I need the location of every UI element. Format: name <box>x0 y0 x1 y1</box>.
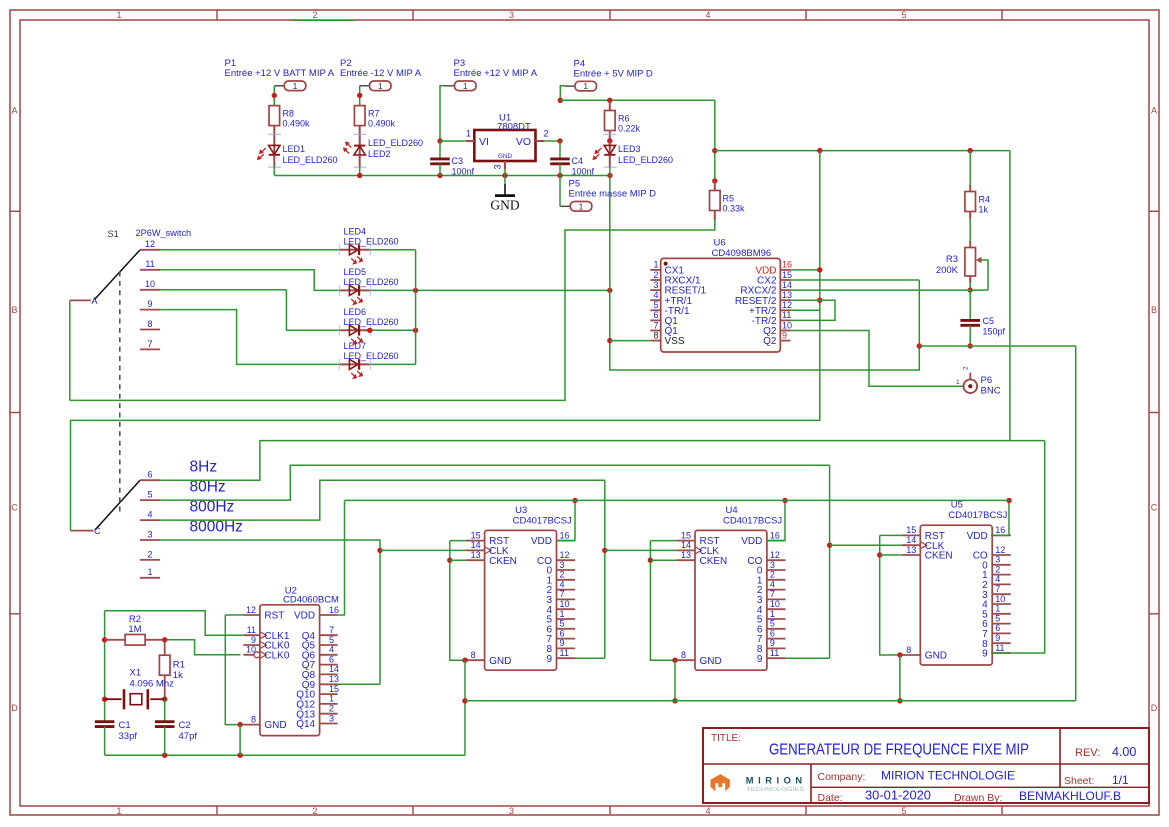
port P3 labels <box>454 58 538 79</box>
svg-text:800Hz: 800Hz <box>190 499 235 516</box>
svg-text:CLK0: CLK0 <box>264 650 289 661</box>
svg-text:C2: C2 <box>179 720 191 731</box>
wire VDD rail y500 <box>345 499 1010 501</box>
S1 pin 11 stub <box>140 269 160 271</box>
svg-text:11: 11 <box>560 648 569 658</box>
svg-text:8: 8 <box>681 650 686 660</box>
junction U3 GND <box>462 658 467 663</box>
svg-text:LED4: LED4 <box>344 227 367 237</box>
LED6 labels <box>344 307 399 327</box>
svg-text:GND: GND <box>925 651 947 662</box>
svg-text:Q2: Q2 <box>763 336 777 347</box>
S1 pin 7 stub <box>140 348 160 350</box>
svg-text:2: 2 <box>329 704 334 714</box>
junction U4 CKEN <box>648 558 653 563</box>
svg-text:7: 7 <box>329 625 334 635</box>
svg-text:X1: X1 <box>130 668 142 679</box>
wire R3 bottom to node <box>969 283 971 290</box>
U5 right pin stubs <box>992 535 1011 653</box>
junction X1 right R1 bottom <box>162 697 167 702</box>
junction U1 gnd <box>502 173 507 178</box>
R8 pin stub to LED1 <box>273 126 275 146</box>
wire U3 RST <box>450 540 466 542</box>
svg-text:10: 10 <box>995 594 1005 604</box>
S1 pin 6 stub <box>140 479 160 481</box>
svg-text:4.00: 4.00 <box>1112 745 1136 759</box>
R4 labels <box>979 195 991 215</box>
svg-text:6: 6 <box>147 470 152 480</box>
R2 left stub <box>105 639 126 641</box>
junction U3 VDD rail <box>572 498 577 503</box>
svg-text:3: 3 <box>493 164 503 169</box>
S1 pin 8 stub <box>140 329 160 331</box>
svg-text:8: 8 <box>471 650 476 660</box>
svg-text:7: 7 <box>653 320 658 330</box>
LED LED7 <box>340 359 370 378</box>
svg-text:11: 11 <box>770 648 779 658</box>
svg-text:7808DT: 7808DT <box>497 122 531 133</box>
U1 pin 1 stub <box>466 140 475 142</box>
wire P4 down <box>560 86 565 101</box>
svg-text:8Hz: 8Hz <box>190 459 218 476</box>
svg-text:15: 15 <box>782 270 792 280</box>
wire U4 CLK feed <box>605 549 677 551</box>
R7 pin stub to LED2 <box>359 126 361 146</box>
R3 top stub <box>969 241 971 248</box>
svg-text:33pf: 33pf <box>119 731 138 742</box>
svg-text:1k: 1k <box>979 205 989 215</box>
svg-text:14: 14 <box>906 535 916 545</box>
svg-text:4: 4 <box>995 574 1000 584</box>
S1 pin 12 number <box>145 239 155 249</box>
LED3 labels <box>618 144 673 165</box>
svg-text:LED6: LED6 <box>344 307 367 317</box>
svg-text:4: 4 <box>770 579 775 589</box>
R3 labels <box>936 254 959 276</box>
svg-text:5: 5 <box>770 619 775 629</box>
U2 reference labels <box>283 586 339 606</box>
wire gnd rail y701 <box>465 700 1076 702</box>
svg-text:4: 4 <box>147 510 152 520</box>
U1 pin 2 number <box>544 129 549 139</box>
svg-text:2: 2 <box>995 564 1000 574</box>
svg-text:80Hz: 80Hz <box>190 479 226 496</box>
net label 8Hz <box>190 459 218 476</box>
svg-text:U4: U4 <box>726 505 738 516</box>
ground symbol GND <box>490 184 519 213</box>
svg-text:LED2: LED2 <box>368 149 391 159</box>
port P2 <box>360 81 392 91</box>
ic U2 CD4060BCM body <box>260 605 320 736</box>
svg-text:CD4017BCSJ: CD4017BCSJ <box>723 515 782 526</box>
svg-text:Company:: Company: <box>818 771 866 783</box>
C2 top wire <box>164 699 166 722</box>
U5 left pin names <box>925 531 953 662</box>
U4 reference labels <box>723 505 782 527</box>
svg-text:C1: C1 <box>119 720 131 731</box>
svg-text:9: 9 <box>757 654 763 665</box>
U3 left pin numbers <box>471 530 481 660</box>
svg-text:9: 9 <box>995 633 1000 643</box>
svg-text:2: 2 <box>147 549 152 559</box>
svg-text:10: 10 <box>560 599 570 609</box>
svg-text:B: B <box>1151 305 1157 315</box>
junction U5 CKEN <box>877 552 882 557</box>
U3 left pin names <box>489 536 517 667</box>
wire rail y150 <box>715 150 1010 152</box>
svg-text:2: 2 <box>653 270 658 280</box>
svg-text:LED7: LED7 <box>344 341 367 351</box>
wire U3 VDD stub ext <box>557 540 576 542</box>
wire x1010 vertical <box>1009 151 1011 441</box>
svg-text:GND: GND <box>700 656 722 667</box>
U1 pin 2 stub <box>536 140 545 142</box>
U4 right pin stubs <box>767 541 786 659</box>
svg-text:9: 9 <box>982 649 988 660</box>
U6 right pin stubs <box>780 270 790 341</box>
svg-text:R7: R7 <box>368 109 380 119</box>
svg-text:7: 7 <box>770 589 775 599</box>
LED1 cathode pin <box>273 155 275 167</box>
wire P3 to U1 VI <box>440 86 445 141</box>
U2 right pin names <box>294 611 316 731</box>
port P5 <box>560 201 592 211</box>
S1 pin 9 number <box>147 299 152 309</box>
U4 left pin stubs <box>676 541 701 661</box>
LED2 anode pin <box>359 155 361 167</box>
S1 pin 2 number <box>147 549 152 559</box>
wire U5 RST-CKEN-GND tie <box>880 535 902 655</box>
LED5 labels <box>344 267 399 287</box>
U6 right pin numbers <box>782 260 792 341</box>
U4 left pin numbers <box>681 530 691 660</box>
svg-text:9: 9 <box>560 638 565 648</box>
capacitor C2 <box>155 722 175 727</box>
junction R2 right R1 top <box>162 637 167 642</box>
svg-text:RST: RST <box>264 611 284 622</box>
svg-text:2: 2 <box>560 570 565 580</box>
R4 bottom stub <box>969 212 971 220</box>
U3 right pin stubs <box>557 541 576 659</box>
junction U5 GND <box>897 652 902 657</box>
svg-text:4: 4 <box>653 290 658 300</box>
svg-text:1: 1 <box>116 806 121 816</box>
LED cathode rail vertical <box>415 250 417 365</box>
capacitor C3 <box>430 159 450 164</box>
S1 pin 9 stub <box>140 309 160 311</box>
svg-text:2: 2 <box>544 129 549 139</box>
svg-text:0.490k: 0.490k <box>283 119 311 129</box>
S1 pin 3 number <box>147 529 152 539</box>
port P3 <box>445 81 477 91</box>
svg-text:2: 2 <box>962 366 969 370</box>
svg-text:7: 7 <box>147 339 152 349</box>
svg-text:LED3: LED3 <box>618 144 641 154</box>
junction U6 VDD <box>817 267 822 272</box>
ic U6 CD4098BM96 body <box>661 258 781 352</box>
svg-text:R6: R6 <box>618 114 630 124</box>
wire P2 to R7 <box>359 86 361 106</box>
S1 pin 8 number <box>147 319 152 329</box>
svg-text:9: 9 <box>770 638 775 648</box>
wire LED rail to gnd vertical <box>416 289 610 291</box>
wire gnd rail top <box>274 175 610 177</box>
wire U5 RST <box>880 534 902 536</box>
svg-text:P6: P6 <box>981 375 993 386</box>
title block texts <box>711 733 1136 804</box>
wire C3 top pin <box>439 141 441 159</box>
svg-text:GND: GND <box>498 153 512 160</box>
svg-text:6: 6 <box>653 310 658 320</box>
R8 labels <box>283 109 311 129</box>
wire U2 Q9 to 8000Hz <box>338 683 380 685</box>
wire C3 bottom to gnd <box>439 164 441 176</box>
wire LED5 cathode to rail <box>359 289 416 291</box>
S1 pin 12 stub <box>140 249 160 251</box>
wire U2 RST to GND tie <box>225 615 243 725</box>
svg-text:MIRION: MIRION <box>746 775 807 785</box>
wire U4 Q9 out <box>785 657 830 659</box>
wire LED2 to gnd rail <box>359 166 361 176</box>
svg-text:11: 11 <box>247 625 256 635</box>
svg-text:GND: GND <box>489 656 511 667</box>
svg-text:6: 6 <box>995 623 1000 633</box>
wire U6 VSS to gnd <box>610 340 651 342</box>
svg-text:1: 1 <box>583 81 588 91</box>
U1 pin 3 stub <box>504 161 506 169</box>
wire gnd vertical x1076 <box>1075 346 1077 701</box>
wire U2 RST <box>225 614 243 616</box>
wire LED1 to gnd rail <box>273 166 275 176</box>
LED1 labels <box>283 144 338 165</box>
svg-text:Entrée masse MIP D: Entrée masse MIP D <box>569 189 657 200</box>
port P4 labels <box>574 58 653 79</box>
junction U6 RESET2 <box>817 298 822 303</box>
wire 8000Hz net <box>160 540 380 684</box>
junction C3 gnd <box>437 173 442 178</box>
R2 labels <box>128 614 141 635</box>
svg-text:1: 1 <box>956 379 960 386</box>
svg-text:3: 3 <box>147 529 152 539</box>
svg-text:10: 10 <box>246 645 256 655</box>
svg-text:1: 1 <box>560 609 565 619</box>
svg-text:4: 4 <box>705 10 710 20</box>
svg-text:16: 16 <box>782 260 792 270</box>
wire U3 CLK feed <box>380 549 466 551</box>
svg-text:CD4098BM96: CD4098BM96 <box>712 248 772 259</box>
LED LED5 <box>340 285 370 304</box>
junction U4 gnd rail <box>672 698 677 703</box>
junction rail LED5 <box>413 288 418 293</box>
svg-text:8: 8 <box>906 645 911 655</box>
junction LED6 cathode <box>367 328 372 333</box>
wire LED7 cathode to rail <box>359 363 416 365</box>
wire CX2 down to C5 bottom <box>918 280 920 346</box>
LED7 labels <box>344 341 399 361</box>
R4 top stub <box>969 185 971 192</box>
svg-text:1M: 1M <box>128 624 141 635</box>
wire U4 RST <box>650 540 676 542</box>
svg-text:1/1: 1/1 <box>1112 773 1129 787</box>
svg-text:12: 12 <box>560 550 570 560</box>
R6 labels <box>618 114 641 134</box>
svg-text:13: 13 <box>782 290 792 300</box>
ic U5 CD4017BCSJ body <box>920 525 992 665</box>
C2 labels <box>179 720 198 742</box>
wire U3 Q9 out <box>575 657 605 659</box>
svg-text:R8: R8 <box>283 109 295 119</box>
svg-text:Q14: Q14 <box>296 719 315 730</box>
S1 pole C arm <box>95 480 140 529</box>
junction rail LED6 <box>413 328 418 333</box>
LED3 cathode pin <box>609 155 611 167</box>
svg-text:3: 3 <box>995 555 1000 565</box>
U3 right pin numbers <box>560 530 570 658</box>
port P2 labels <box>340 58 422 79</box>
wire U5 VDD up <box>1008 500 1010 535</box>
junction 80Hz U5 clk <box>827 543 832 548</box>
S1 pin 5 number <box>147 490 152 500</box>
R5 bottom stub <box>714 211 716 221</box>
R5 pin stub top <box>714 181 716 191</box>
svg-text:1: 1 <box>653 260 658 270</box>
wire S1 pin10 to LED6 <box>286 290 346 331</box>
S1 common C letter <box>94 526 101 536</box>
U3 left pin stubs <box>466 541 491 661</box>
svg-text:C5: C5 <box>983 316 995 326</box>
svg-text:5: 5 <box>329 635 334 645</box>
resistor R5 <box>710 191 721 211</box>
wire U5 CKEN <box>880 554 902 556</box>
R5 labels <box>723 194 746 214</box>
svg-text:U3: U3 <box>515 505 527 516</box>
wire C4 bottom <box>559 164 561 176</box>
junction C4 gnd <box>557 173 562 178</box>
svg-text:12: 12 <box>246 605 256 615</box>
wire U2 GND down to rail <box>239 725 241 756</box>
S1 common A letter <box>92 296 98 306</box>
junction U1 VO / C4 <box>557 138 562 143</box>
net label 8000Hz <box>190 519 243 536</box>
junction C5 gnd <box>968 343 973 348</box>
svg-text:10: 10 <box>782 320 792 330</box>
svg-text:14: 14 <box>329 664 339 674</box>
port P4 <box>565 81 597 91</box>
resistor R7 <box>354 106 365 126</box>
junction U5 gnd rail <box>897 698 902 703</box>
C3 labels <box>452 156 475 177</box>
svg-text:C: C <box>1151 503 1158 513</box>
wire gnd rail y755 <box>105 754 465 756</box>
svg-text:R4: R4 <box>979 195 991 205</box>
junction rail R4 <box>968 148 973 153</box>
svg-text:14: 14 <box>471 540 481 550</box>
svg-text:8: 8 <box>653 330 658 340</box>
R1 bottom stub <box>164 675 166 699</box>
svg-text:VDD: VDD <box>741 536 762 547</box>
crystal X1 <box>105 689 165 709</box>
resistor R1 <box>159 655 170 675</box>
svg-text:LED5: LED5 <box>344 267 367 277</box>
net label 80Hz <box>190 479 226 496</box>
wire U6 VDD pin16 <box>791 269 820 271</box>
junction U2 gnd rail <box>237 753 242 758</box>
R3 bottom stub <box>969 276 971 283</box>
title block frame <box>703 728 1149 803</box>
S1-A vertical <box>69 300 71 400</box>
svg-text:MIRION TECHNOLOGIE: MIRION TECHNOLOGIE <box>881 769 1015 783</box>
x104 vertical osc node <box>104 611 106 722</box>
C1 labels <box>119 720 138 742</box>
svg-text:VI: VI <box>479 136 489 148</box>
wire gnd vertical x610 and VSS jog <box>610 176 920 371</box>
svg-text:5: 5 <box>560 619 565 629</box>
svg-text:U6: U6 <box>714 238 726 249</box>
S1 pin 1 number <box>147 567 152 577</box>
svg-text:2P6W_switch: 2P6W_switch <box>136 228 192 238</box>
S1 pin 1 stub <box>140 577 160 579</box>
U5 right pin numbers <box>995 525 1005 653</box>
svg-text:16: 16 <box>995 525 1005 535</box>
S1 pin 10 stub <box>140 289 160 291</box>
wire U4 RST-CKEN-GND tie <box>650 541 676 661</box>
svg-text:8: 8 <box>147 319 152 329</box>
svg-text:GND: GND <box>264 720 286 731</box>
svg-text:TITLE:: TITLE: <box>711 733 741 744</box>
LED LED4 <box>340 245 370 264</box>
U5 right pin names <box>967 531 989 660</box>
resistor R4 <box>965 192 976 212</box>
svg-text:VDD: VDD <box>531 536 552 547</box>
junction 8000Hz U3 clk <box>377 548 382 553</box>
S1 pin 7 number <box>147 339 152 349</box>
svg-text:GENERATEUR DE FREQUENCE FIXE M: GENERATEUR DE FREQUENCE FIXE MIP <box>769 742 1029 759</box>
svg-text:Entrée -12 V MIP A: Entrée -12 V MIP A <box>340 68 422 79</box>
svg-text:D: D <box>11 703 18 713</box>
svg-text:Date:: Date: <box>818 792 843 804</box>
svg-text:5: 5 <box>147 490 152 500</box>
resistor R6 <box>605 111 616 131</box>
svg-text:13: 13 <box>329 674 339 684</box>
wire R5 to switch A common <box>70 220 715 400</box>
svg-text:0.33k: 0.33k <box>723 204 746 214</box>
junction CX2 gnd line <box>917 343 922 348</box>
U5 reference labels <box>948 500 1007 522</box>
svg-text:5: 5 <box>653 300 658 310</box>
wire U3 RST-CKEN-GND tie <box>450 541 466 661</box>
wire 80Hz net <box>160 465 830 500</box>
svg-text:1: 1 <box>378 81 383 91</box>
LED LED6 <box>340 325 370 344</box>
svg-text:4: 4 <box>560 579 565 589</box>
R1 top stub <box>164 640 166 655</box>
svg-text:2: 2 <box>312 806 317 816</box>
svg-text:LED_ELD260: LED_ELD260 <box>283 155 338 165</box>
wire 8Hz net <box>160 441 1045 481</box>
svg-text:47pf: 47pf <box>179 731 198 742</box>
svg-text:6: 6 <box>770 628 775 638</box>
S1 pin 2 stub <box>140 559 160 561</box>
svg-text:200K: 200K <box>936 265 959 276</box>
S1 common A stub <box>70 299 91 301</box>
svg-text:3: 3 <box>329 713 334 723</box>
svg-text:15: 15 <box>906 525 916 535</box>
P6 labels <box>981 375 1001 397</box>
U1 pin names <box>479 136 531 160</box>
wire U6 CX2 pin15 <box>791 279 920 281</box>
svg-text:1: 1 <box>147 567 152 577</box>
capacitor C5 <box>960 320 980 325</box>
